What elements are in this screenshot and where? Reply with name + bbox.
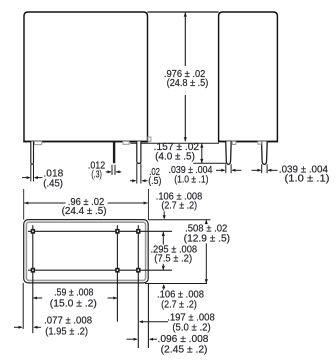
svg-text:.077 ± .008: .077 ± .008 — [44, 316, 92, 327]
svg-text:(.45): (.45) — [43, 178, 63, 189]
svg-text:(4.0 ± .5): (4.0 ± .5) — [155, 152, 195, 163]
svg-text:(1.0 ± .1): (1.0 ± .1) — [174, 175, 208, 186]
bottom edge extension line — [145, 283, 207, 285]
svg-text:.59 ± .008: .59 ± .008 — [54, 288, 93, 299]
wire extension line pin-tip level y163 — [193, 162, 226, 164]
dimension .02 arrows — [130, 180, 135, 182]
dimension .039 arrows pin1 — [216, 169, 224, 171]
svg-text:(24.8 ± .5): (24.8 ± .5) — [167, 78, 209, 89]
pin 2 extension lines — [111, 165, 113, 175]
relay body front view — [24, 12, 148, 142]
standoff notch 1 — [34, 141, 41, 144]
pin 3 extension lines — [136, 163, 138, 183]
svg-text:.096 ± .008: .096 ± .008 — [158, 334, 209, 345]
pad column line 2 — [116, 225, 118, 322]
side pin 2 extension lines — [261, 164, 263, 173]
svg-text:(24.4 ± .5): (24.4 ± .5) — [62, 206, 107, 217]
side pin 1 extension lines — [225, 164, 227, 173]
svg-text:(7.5 ± .2): (7.5 ± .2) — [154, 253, 192, 264]
pad B3 — [136, 268, 140, 273]
pin 2 front view — [113, 141, 115, 163]
svg-text:(15.0 ± .2): (15.0 ± .2) — [50, 299, 97, 310]
dimension .096 arrows — [127, 338, 137, 340]
pad row line 1 — [28, 230, 172, 232]
wire top extension line between views — [148, 11, 219, 13]
dimension .508 line — [205, 220, 207, 224]
wire extension line pin-base level y143 — [130, 142, 219, 144]
svg-text:(.5): (.5) — [148, 176, 161, 187]
pad B1 — [31, 268, 35, 273]
front bottom edge — [23, 140, 148, 142]
dimension .018 arrows — [22, 177, 29, 179]
dimension .039 arrows pin2 — [252, 169, 261, 171]
svg-text:(2.7 ± .2): (2.7 ± .2) — [161, 201, 197, 212]
left edge extension line — [22, 283, 24, 329]
pin 3 front view — [137, 141, 141, 163]
pad A3 — [136, 229, 140, 234]
dimension .157 line — [201, 143, 203, 163]
dimension .106 bottom arrow — [163, 285, 165, 290]
svg-text:(12.9 ± .5): (12.9 ± .5) — [184, 233, 230, 244]
standoff notch 2 — [123, 141, 129, 144]
bottom view outer body — [24, 220, 149, 283]
side pin 2 — [262, 141, 268, 164]
side pin 1 notch — [232, 141, 236, 144]
side bottom edge — [218, 140, 278, 142]
dimension .012 arrows — [106, 171, 111, 173]
pad column line 1 — [32, 225, 34, 333]
dimension .077 arrows — [14, 326, 22, 328]
side pin 1 — [226, 141, 232, 164]
top edge extension line — [148, 219, 210, 221]
pin 1 front view — [31, 141, 34, 164]
svg-text:(1.95 ± .2): (1.95 ± .2) — [45, 326, 88, 337]
side pin 2 notch — [258, 141, 261, 144]
pad B2 — [115, 268, 119, 273]
svg-text:(.3): (.3) — [91, 170, 101, 181]
relay body side view — [219, 12, 278, 142]
svg-text:(2.7 ± .2): (2.7 ± .2) — [161, 299, 197, 310]
dimension .96 line — [24, 202, 65, 204]
pad A2 — [115, 229, 119, 234]
dimension .976 line — [184, 13, 186, 66]
dimension .295 line — [162, 232, 164, 245]
pad column line 3 — [137, 225, 139, 348]
svg-text:(1.0 ± .1): (1.0 ± .1) — [285, 174, 330, 185]
dimension .96 extension lines — [23, 189, 25, 220]
pin 1 extension lines — [30, 164, 32, 181]
right edge extension line — [147, 283, 149, 348]
pad A1 — [31, 229, 35, 234]
dimension .197 leader — [140, 321, 168, 323]
dimension .59 line — [33, 297, 42, 299]
svg-text:(2.45 ± .2): (2.45 ± .2) — [161, 345, 208, 356]
dimension .106 top arrow — [163, 211, 165, 218]
corner tab — [148, 137, 151, 141]
svg-text:(5.0 ± .2): (5.0 ± .2) — [172, 322, 210, 333]
pad row line 2 — [28, 269, 172, 271]
bottom view inner ring — [26, 222, 145, 280]
